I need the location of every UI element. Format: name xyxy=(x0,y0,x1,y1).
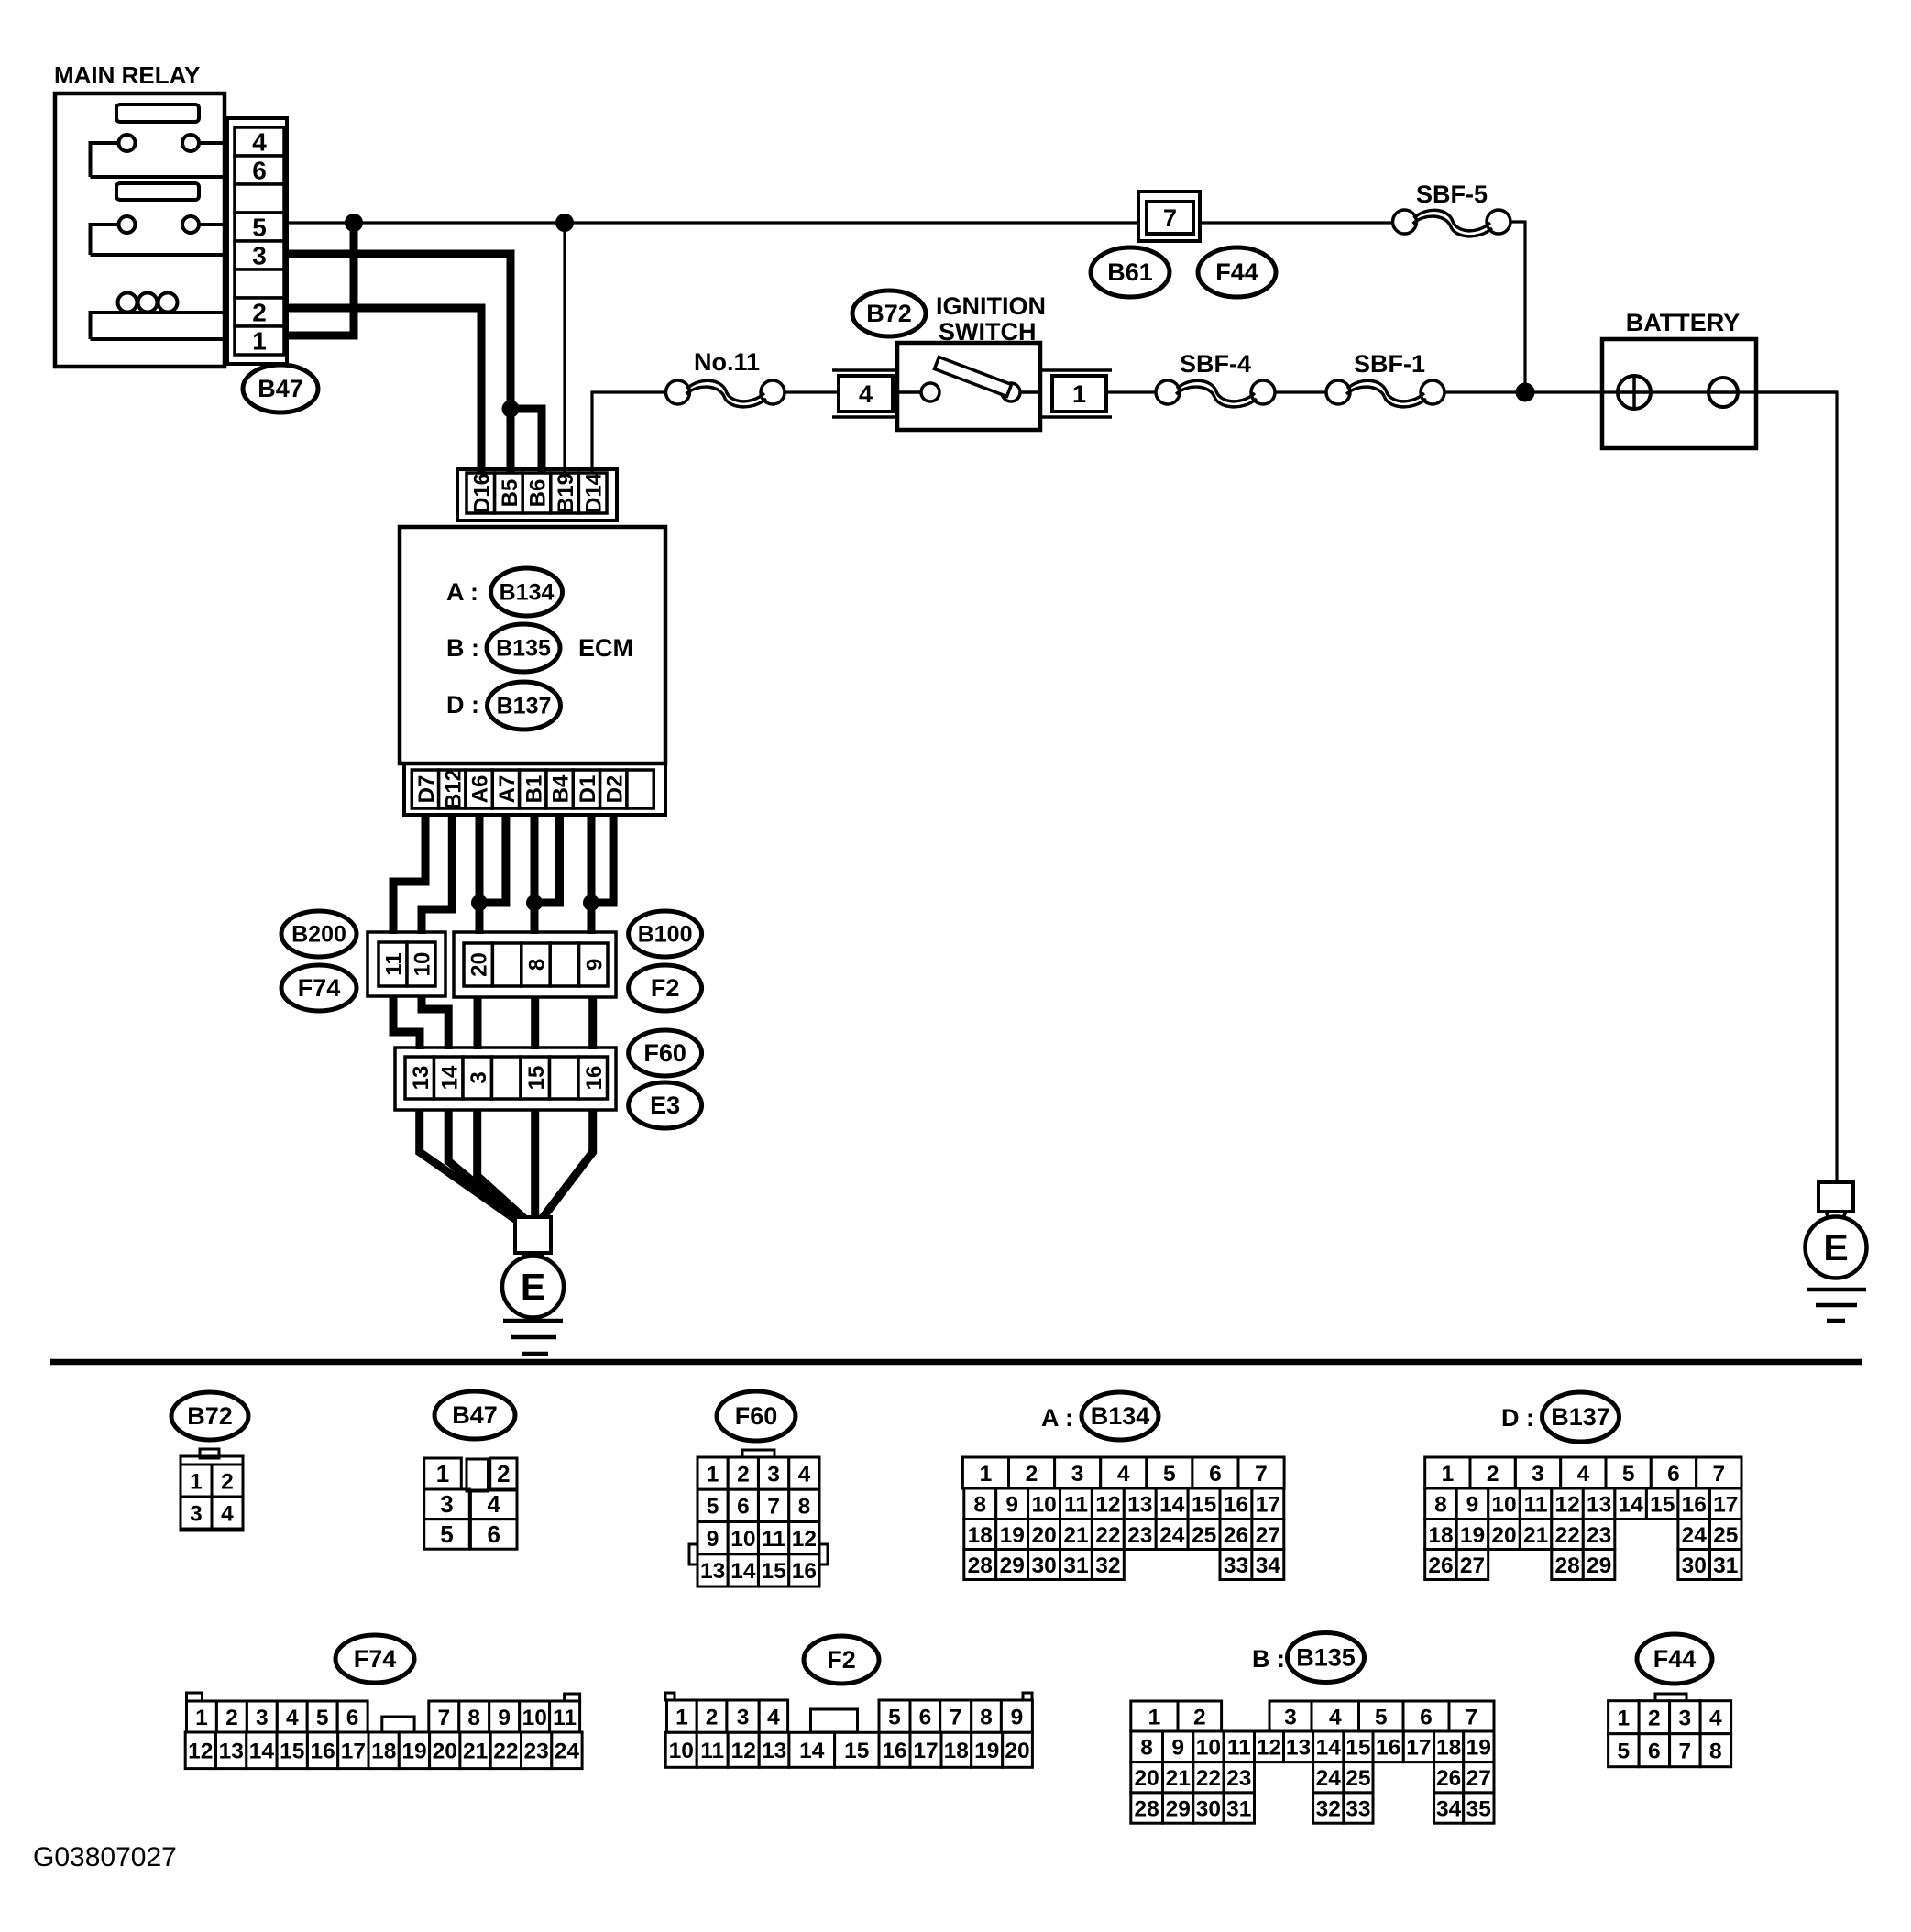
svg-text:6: 6 xyxy=(1648,1740,1661,1764)
svg-text:6: 6 xyxy=(487,1520,500,1548)
svg-text:11: 11 xyxy=(1524,1493,1548,1518)
svg-text:15: 15 xyxy=(761,1559,785,1584)
svg-text:20: 20 xyxy=(467,952,492,977)
svg-text:5: 5 xyxy=(1617,1740,1630,1764)
oval E3 xyxy=(629,1082,702,1128)
svg-text:17: 17 xyxy=(1713,1493,1738,1518)
svg-text:F44: F44 xyxy=(1215,258,1258,286)
svg-text:16: 16 xyxy=(1376,1736,1400,1761)
svg-text:13: 13 xyxy=(409,1066,434,1091)
wire pin20 to pin3 xyxy=(474,997,482,1049)
svg-text:3: 3 xyxy=(1284,1705,1297,1729)
svg-text:28: 28 xyxy=(1134,1796,1159,1821)
svg-text:33: 33 xyxy=(1224,1553,1248,1578)
svg-text:F44: F44 xyxy=(1653,1645,1697,1673)
left ground E symbol xyxy=(502,1217,564,1318)
svg-text:20: 20 xyxy=(1005,1739,1029,1763)
svg-text:4: 4 xyxy=(286,1706,299,1730)
svg-text:4: 4 xyxy=(221,1501,234,1526)
svg-text:33: 33 xyxy=(1345,1796,1370,1821)
junction dot SBF-5/battery xyxy=(1516,383,1534,401)
svg-text:31: 31 xyxy=(1713,1553,1738,1578)
svg-text:5: 5 xyxy=(316,1706,329,1730)
svg-text:11: 11 xyxy=(700,1739,724,1763)
svg-text:8: 8 xyxy=(1434,1493,1447,1518)
svg-text:19: 19 xyxy=(1466,1736,1491,1761)
svg-text:5: 5 xyxy=(1375,1705,1388,1729)
svg-text:6: 6 xyxy=(737,1495,750,1520)
svg-text:24: 24 xyxy=(1159,1523,1185,1548)
svg-text:11: 11 xyxy=(762,1527,785,1552)
oval B61 xyxy=(1091,247,1170,297)
svg-text:7: 7 xyxy=(1255,1462,1268,1487)
svg-text:B61: B61 xyxy=(1107,258,1153,286)
ECM bottom connector cells D7 B12 A6 A7 B1 B4 D1 D2 xyxy=(412,769,653,809)
svg-text:29: 29 xyxy=(1000,1553,1025,1578)
wire relay pin3 (thick) xyxy=(287,250,515,474)
svg-text:12: 12 xyxy=(1257,1736,1281,1761)
svg-text:7: 7 xyxy=(767,1495,780,1520)
ground wire from pin3 xyxy=(478,1110,528,1222)
svg-text:24: 24 xyxy=(555,1740,580,1764)
ECM label A: B134 xyxy=(446,568,563,616)
svg-text:1: 1 xyxy=(195,1706,208,1730)
oval F44 top xyxy=(1198,247,1276,297)
wire relay pin2 to D16 (thick) xyxy=(287,304,486,474)
relay movable contact bar 1 xyxy=(116,104,199,122)
wire pin10 to pin14 xyxy=(422,996,448,1049)
svg-text:16: 16 xyxy=(582,1066,607,1091)
svg-text:3: 3 xyxy=(440,1490,453,1518)
oval B72 xyxy=(852,291,926,336)
svg-text:16: 16 xyxy=(882,1739,906,1763)
svg-text:9: 9 xyxy=(1005,1493,1018,1518)
svg-text:F74: F74 xyxy=(354,1645,397,1673)
svg-text:A6: A6 xyxy=(468,775,493,804)
fuse SBF-1 xyxy=(1326,350,1444,407)
svg-text:11: 11 xyxy=(382,952,407,975)
svg-text:D16: D16 xyxy=(469,473,494,513)
svg-text:SBF-4: SBF-4 xyxy=(1180,350,1251,378)
oval B72 pinout xyxy=(171,1392,248,1440)
svg-text:B6: B6 xyxy=(526,479,551,508)
svg-text:16: 16 xyxy=(1224,1493,1248,1518)
svg-text:B200: B200 xyxy=(291,922,346,948)
svg-text:1: 1 xyxy=(252,327,267,356)
svg-text:34: 34 xyxy=(1436,1796,1462,1821)
svg-text:10: 10 xyxy=(411,952,435,977)
svg-text:D :: D : xyxy=(446,691,479,719)
svg-text:11: 11 xyxy=(1064,1493,1088,1518)
svg-text:2: 2 xyxy=(706,1705,719,1729)
wire pin8 to pin15 xyxy=(531,997,539,1049)
svg-text:18: 18 xyxy=(371,1740,396,1764)
svg-text:F2: F2 xyxy=(651,974,680,1002)
svg-text:30: 30 xyxy=(1196,1796,1221,1821)
svg-text:8: 8 xyxy=(1140,1736,1153,1761)
battery box xyxy=(1602,339,1756,448)
svg-text:D2: D2 xyxy=(602,775,627,804)
connector pin box 4 (B72) xyxy=(832,370,897,417)
svg-text:7: 7 xyxy=(1712,1462,1725,1487)
separator line xyxy=(50,1359,1862,1366)
svg-text:1: 1 xyxy=(1148,1705,1161,1729)
svg-text:3: 3 xyxy=(467,1071,491,1083)
svg-text:16: 16 xyxy=(1682,1493,1707,1518)
ECM top connector cells D16 B5 B6 B19 D14 xyxy=(467,472,607,513)
svg-text:16: 16 xyxy=(792,1559,817,1584)
svg-text:14: 14 xyxy=(437,1065,462,1090)
svg-text:31: 31 xyxy=(1226,1796,1251,1821)
svg-text:35: 35 xyxy=(1466,1796,1491,1821)
svg-text:20: 20 xyxy=(1134,1766,1159,1791)
svg-text:A :: A : xyxy=(1041,1404,1073,1432)
svg-text:18: 18 xyxy=(1436,1736,1461,1761)
svg-text:SBF-1: SBF-1 xyxy=(1354,350,1425,378)
svg-text:25: 25 xyxy=(1345,1766,1370,1791)
svg-text:9: 9 xyxy=(707,1527,719,1552)
svg-text:22: 22 xyxy=(1095,1523,1120,1548)
svg-text:14: 14 xyxy=(1618,1493,1643,1518)
svg-text:13: 13 xyxy=(1587,1493,1611,1518)
svg-text:30: 30 xyxy=(1031,1553,1056,1578)
right ground lines xyxy=(1807,1290,1866,1321)
svg-text:10: 10 xyxy=(1196,1736,1221,1761)
junction dot pin5/pin1 xyxy=(346,214,363,232)
svg-text:19: 19 xyxy=(1460,1523,1485,1548)
svg-text:9: 9 xyxy=(582,959,607,971)
svg-text:15: 15 xyxy=(844,1739,869,1763)
svg-text:A :: A : xyxy=(446,578,478,606)
svg-text:20: 20 xyxy=(1031,1523,1056,1548)
svg-text:12: 12 xyxy=(1095,1493,1120,1518)
svg-text:9: 9 xyxy=(1466,1493,1479,1518)
label B: and oval B135 pinout xyxy=(1252,1633,1365,1683)
svg-text:B12: B12 xyxy=(441,769,466,809)
wire D2 joins D1 xyxy=(591,815,613,903)
svg-text:7: 7 xyxy=(1466,1705,1478,1729)
wire B4 joins B1 xyxy=(534,815,560,903)
oval F74 pinout xyxy=(335,1635,414,1683)
svg-text:10: 10 xyxy=(669,1739,694,1763)
svg-text:2: 2 xyxy=(225,1706,238,1730)
svg-text:27: 27 xyxy=(1460,1553,1485,1578)
svg-text:20: 20 xyxy=(1491,1523,1516,1548)
svg-text:7: 7 xyxy=(1678,1740,1691,1764)
svg-text:10: 10 xyxy=(522,1706,547,1730)
svg-text:F60: F60 xyxy=(643,1039,686,1067)
svg-text:9: 9 xyxy=(498,1706,511,1730)
svg-text:1: 1 xyxy=(1072,380,1086,408)
svg-text:4: 4 xyxy=(1709,1707,1722,1731)
svg-text:E: E xyxy=(1823,1226,1848,1268)
wire connector 1 to SBF-4 xyxy=(1106,390,1156,393)
svg-text:23: 23 xyxy=(1587,1523,1611,1548)
label IGNITION SWITCH xyxy=(936,292,1046,346)
svg-text:1: 1 xyxy=(436,1460,449,1487)
svg-text:5: 5 xyxy=(707,1495,719,1520)
wire A6 to pin 20 xyxy=(476,815,484,934)
svg-text:13: 13 xyxy=(1286,1736,1311,1761)
svg-text:15: 15 xyxy=(1650,1493,1675,1518)
wire battery to right ground xyxy=(1756,390,1837,1182)
svg-text:B19: B19 xyxy=(554,473,578,513)
svg-text:1: 1 xyxy=(190,1469,203,1494)
svg-text:26: 26 xyxy=(1224,1523,1248,1548)
wire fuse No.11 to connector 4 xyxy=(785,390,839,393)
svg-text:14: 14 xyxy=(799,1739,825,1763)
left ground lines xyxy=(503,1321,563,1354)
svg-text:B135: B135 xyxy=(496,636,551,662)
svg-text:1: 1 xyxy=(980,1462,993,1487)
svg-text:23: 23 xyxy=(1127,1523,1152,1548)
wire SBF-1 to battery xyxy=(1444,390,1837,393)
wire pin11 to pin13 xyxy=(393,996,420,1049)
svg-text:B135: B135 xyxy=(1296,1644,1356,1672)
svg-text:MAIN RELAY: MAIN RELAY xyxy=(54,61,200,89)
svg-text:8: 8 xyxy=(467,1706,480,1730)
svg-text:25: 25 xyxy=(1192,1523,1216,1548)
svg-text:15: 15 xyxy=(280,1740,304,1764)
svg-text:4: 4 xyxy=(767,1705,780,1729)
junction dot pin5/B19 xyxy=(556,214,574,232)
svg-text:8: 8 xyxy=(798,1495,811,1520)
wire branch to B6 (thick) xyxy=(511,409,546,473)
svg-text:19: 19 xyxy=(401,1740,426,1764)
svg-text:6: 6 xyxy=(346,1706,359,1730)
connector B137 pinout grid xyxy=(1425,1457,1741,1580)
svg-text:D :: D : xyxy=(1501,1404,1534,1432)
svg-text:13: 13 xyxy=(1127,1493,1152,1518)
svg-text:17: 17 xyxy=(913,1739,938,1763)
svg-text:IGNITION: IGNITION xyxy=(936,292,1046,320)
wire D7 to pin 11 xyxy=(393,815,425,934)
svg-text:3: 3 xyxy=(256,1706,269,1730)
svg-text:25: 25 xyxy=(1713,1523,1738,1548)
svg-text:20: 20 xyxy=(433,1740,457,1764)
svg-text:3: 3 xyxy=(190,1501,203,1526)
svg-text:2: 2 xyxy=(737,1462,750,1487)
svg-text:1: 1 xyxy=(1442,1462,1455,1487)
connector F60 pinout grid xyxy=(689,1450,828,1586)
svg-text:32: 32 xyxy=(1095,1553,1120,1578)
svg-text:B5: B5 xyxy=(498,479,522,508)
svg-text:ECM: ECM xyxy=(578,634,633,662)
svg-text:1: 1 xyxy=(1617,1707,1630,1731)
oval B200 xyxy=(281,911,357,957)
svg-text:28: 28 xyxy=(1554,1553,1579,1578)
svg-text:10: 10 xyxy=(1031,1493,1056,1518)
svg-text:4: 4 xyxy=(487,1490,500,1518)
relay contact 1 circles and wires xyxy=(91,135,225,177)
svg-text:15: 15 xyxy=(1345,1736,1370,1761)
oval B47 xyxy=(243,365,318,412)
main relay box xyxy=(55,93,225,367)
svg-text:6: 6 xyxy=(1209,1462,1222,1487)
svg-text:18: 18 xyxy=(944,1739,969,1763)
svg-text:14: 14 xyxy=(249,1740,275,1764)
ECM label B: B135 and ECM xyxy=(446,624,633,672)
ECM bottom connector shell xyxy=(404,763,665,815)
svg-text:A7: A7 xyxy=(495,775,520,804)
svg-text:4: 4 xyxy=(859,380,873,408)
relay coil xyxy=(91,293,225,340)
svg-text:24: 24 xyxy=(1682,1523,1708,1548)
svg-text:28: 28 xyxy=(968,1553,993,1578)
svg-text:19: 19 xyxy=(974,1739,999,1763)
svg-text:No.11: No.11 xyxy=(694,348,760,376)
svg-text:23: 23 xyxy=(1226,1766,1251,1791)
junction dot D1/D2 xyxy=(584,895,599,911)
svg-text:21: 21 xyxy=(1166,1766,1191,1791)
svg-text:21: 21 xyxy=(1063,1523,1088,1548)
wire pin9 to pin16 xyxy=(588,997,597,1049)
svg-text:2: 2 xyxy=(221,1469,234,1494)
svg-text:22: 22 xyxy=(1554,1523,1579,1548)
svg-text:30: 30 xyxy=(1682,1553,1707,1578)
svg-text:21: 21 xyxy=(463,1740,488,1764)
connector B72 pinout grid xyxy=(181,1449,243,1531)
ground wire from pin14 xyxy=(448,1110,524,1224)
label A: and oval B134 pinout xyxy=(1041,1392,1159,1440)
oval B47 pinout xyxy=(434,1391,515,1439)
svg-text:13: 13 xyxy=(219,1740,244,1764)
wire B1 to pin 8 xyxy=(531,815,539,934)
ECM label D: B137 xyxy=(446,682,561,730)
right ground E symbol xyxy=(1806,1182,1867,1279)
svg-text:14: 14 xyxy=(730,1559,756,1584)
connector B134 pinout grid xyxy=(962,1457,1284,1580)
svg-text:34: 34 xyxy=(1256,1553,1281,1578)
ECM top connector shell xyxy=(457,469,617,521)
connector B100/F2 shell xyxy=(454,932,616,997)
svg-text:E3: E3 xyxy=(650,1092,680,1119)
svg-text:8: 8 xyxy=(1709,1740,1722,1764)
svg-text:3: 3 xyxy=(737,1705,750,1729)
relay connector B47 cells xyxy=(235,127,284,356)
svg-text:22: 22 xyxy=(1196,1766,1221,1791)
svg-text:6: 6 xyxy=(919,1705,932,1729)
wire to ECM B19 (thin vertical) xyxy=(563,223,566,473)
svg-text:16: 16 xyxy=(310,1740,335,1764)
ground wire from pin16 xyxy=(542,1110,593,1219)
svg-text:B47: B47 xyxy=(452,1401,498,1429)
svg-text:B4: B4 xyxy=(549,774,574,803)
svg-text:1: 1 xyxy=(707,1462,719,1487)
connector F60/E3 shell xyxy=(395,1048,616,1110)
svg-text:24: 24 xyxy=(1316,1766,1342,1791)
svg-text:5: 5 xyxy=(252,214,267,242)
svg-text:2: 2 xyxy=(1193,1705,1206,1729)
svg-text:D14: D14 xyxy=(582,472,607,513)
svg-text:17: 17 xyxy=(1256,1493,1280,1518)
svg-text:10: 10 xyxy=(730,1527,755,1552)
label D: and oval B137 pinout xyxy=(1501,1392,1620,1442)
svg-text:B47: B47 xyxy=(258,375,303,402)
svg-text:D1: D1 xyxy=(576,775,600,804)
relay connector B47 shell xyxy=(227,118,287,364)
svg-text:1: 1 xyxy=(675,1705,688,1729)
svg-text:3: 3 xyxy=(252,242,267,270)
svg-text:2: 2 xyxy=(252,299,267,327)
svg-text:6: 6 xyxy=(1667,1462,1680,1487)
svg-text:SBF-5: SBF-5 xyxy=(1416,181,1488,208)
oval B100 xyxy=(629,911,702,957)
svg-text:23: 23 xyxy=(523,1740,548,1764)
svg-text:5: 5 xyxy=(1163,1462,1176,1487)
connector B47 pinout grid xyxy=(424,1458,517,1549)
svg-text:3: 3 xyxy=(1678,1707,1691,1731)
relay movable contact bar 2 xyxy=(116,183,199,200)
svg-text:27: 27 xyxy=(1256,1523,1280,1548)
svg-text:21: 21 xyxy=(1523,1523,1548,1548)
svg-text:7: 7 xyxy=(950,1705,962,1729)
svg-text:B134: B134 xyxy=(500,580,555,606)
svg-text:2: 2 xyxy=(1648,1707,1661,1731)
svg-text:2: 2 xyxy=(1026,1462,1038,1487)
svg-text:B72: B72 xyxy=(866,300,912,327)
oval F2 mid xyxy=(629,965,702,1011)
svg-text:4: 4 xyxy=(1117,1462,1130,1487)
svg-text:B :: B : xyxy=(446,634,479,662)
svg-text:B137: B137 xyxy=(497,694,552,719)
junction dot B5 xyxy=(502,401,519,417)
svg-text:19: 19 xyxy=(1000,1523,1025,1548)
svg-text:F60: F60 xyxy=(735,1402,778,1430)
connector B200/F74 cells 11 10 xyxy=(379,942,435,986)
fuse No.11 xyxy=(666,348,785,407)
wire D1 to pin 9 xyxy=(588,815,596,934)
svg-text:14: 14 xyxy=(1159,1493,1185,1518)
svg-text:3: 3 xyxy=(1532,1462,1544,1487)
connector B200/F74 shell xyxy=(368,932,445,996)
svg-text:D7: D7 xyxy=(414,775,439,804)
battery negative terminal xyxy=(1708,378,1738,407)
ignition switch box xyxy=(897,343,1040,430)
svg-text:5: 5 xyxy=(440,1520,453,1548)
svg-text:5: 5 xyxy=(888,1705,901,1729)
svg-text:E: E xyxy=(521,1266,545,1308)
connector B100/F2 cells 20 8 9 xyxy=(464,943,608,986)
svg-text:12: 12 xyxy=(1554,1493,1579,1518)
svg-text:4: 4 xyxy=(798,1462,811,1487)
ignition switch contacts and lever xyxy=(897,357,1040,402)
svg-text:6: 6 xyxy=(252,157,267,185)
relay contact 2 circles and wires xyxy=(91,216,225,255)
svg-text:15: 15 xyxy=(524,1066,549,1091)
svg-text:8: 8 xyxy=(525,959,550,971)
svg-text:17: 17 xyxy=(341,1740,366,1764)
oval F44 pinout xyxy=(1637,1634,1712,1684)
svg-text:12: 12 xyxy=(188,1740,213,1764)
svg-text:B72: B72 xyxy=(187,1402,233,1430)
connector F60/E3 cells 13 14 3 15 16 xyxy=(405,1057,608,1099)
svg-text:12: 12 xyxy=(792,1527,817,1552)
svg-text:13: 13 xyxy=(700,1559,725,1584)
svg-text:11: 11 xyxy=(553,1706,577,1730)
svg-text:26: 26 xyxy=(1436,1766,1461,1791)
svg-text:8: 8 xyxy=(980,1705,993,1729)
wire B12 to pin 10 xyxy=(422,815,452,934)
svg-text:9: 9 xyxy=(1171,1736,1184,1761)
svg-text:2: 2 xyxy=(497,1460,510,1487)
svg-text:18: 18 xyxy=(968,1523,993,1548)
wire ECM D14 to ignition line xyxy=(590,392,665,473)
wire relay pin5 to SBF-5 (thin horizontal) xyxy=(287,221,1393,224)
svg-text:11: 11 xyxy=(1227,1736,1251,1761)
svg-text:32: 32 xyxy=(1316,1796,1341,1821)
svg-text:3: 3 xyxy=(767,1462,780,1487)
